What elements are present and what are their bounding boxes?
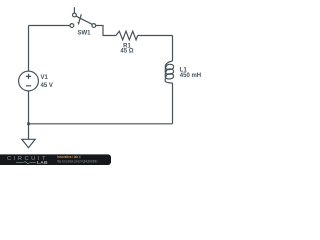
svg-text:45 Ω: 45 Ω [120,48,133,54]
svg-text:http://circuitlab.com/c/7q64c6: http://circuitlab.com/c/7q64c69m69fv [57,160,98,164]
svg-text:450 mH: 450 mH [180,73,201,79]
svg-text:V1: V1 [41,75,49,81]
svg-text:Innovativa / lab 4: Innovativa / lab 4 [57,155,81,159]
svg-text:SW1: SW1 [78,31,92,37]
svg-text:LAB: LAB [37,160,48,165]
svg-text:45 V: 45 V [41,83,53,89]
